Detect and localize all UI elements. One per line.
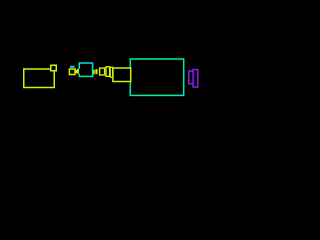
sensor U1 cap (cyan bar) [70,66,75,68]
connector stage D [106,67,110,77]
U2 left edge pin notch (black) [78,69,80,74]
connector P2 (purple, outer) [193,70,198,88]
IC U2 (cyan square) [79,63,92,76]
connector P1 (purple, inner) [189,71,194,84]
battery B1 body (left) [24,69,55,88]
pin pad A (on U2 right edge) [93,70,94,75]
sensor U1 body [69,69,75,75]
battery B1 terminal pad [51,65,57,71]
sensor U1 pin pad (over U2 left edge) [77,69,79,74]
connector stage B [95,70,98,74]
module F (yellow block overlapping G) [113,68,131,82]
connector stage E [110,67,112,77]
sensor U1 pin bridge [75,70,77,73]
module G (large teal block, right) [130,59,183,95]
connector stage C [100,68,105,75]
